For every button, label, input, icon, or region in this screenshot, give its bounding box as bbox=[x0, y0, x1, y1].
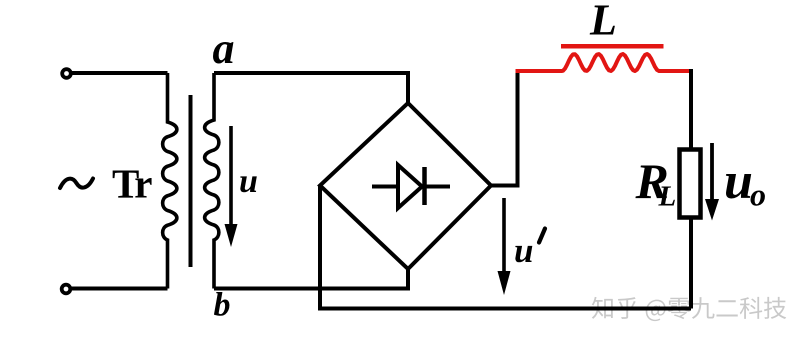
wire b to bridge bbox=[214, 269, 408, 289]
svg-text:u: u bbox=[724, 153, 753, 210]
watermark 知乎 @零九二科技 bbox=[592, 297, 786, 321]
terminal (bottom-left) bbox=[62, 285, 71, 294]
wire a to bridge bbox=[214, 73, 408, 103]
svg-text:u: u bbox=[514, 231, 533, 270]
wire top-left bbox=[72, 71, 168, 75]
svg-text:a: a bbox=[213, 24, 235, 73]
transformer Tr secondary winding bbox=[205, 73, 219, 289]
diode symbol lead bbox=[372, 185, 450, 189]
svg-text:Tr: Tr bbox=[112, 161, 152, 207]
inductor L red bar bbox=[561, 44, 664, 49]
wire bridge right vertex to inductor bbox=[491, 69, 518, 186]
bridge rectifier diamond bbox=[320, 103, 491, 269]
arrow u bbox=[229, 126, 233, 228]
wire inductor to resistor bbox=[689, 69, 693, 150]
svg-text:L: L bbox=[658, 181, 677, 213]
resistor RL body bbox=[680, 150, 701, 218]
svg-text:o: o bbox=[750, 177, 766, 213]
arrow uo bbox=[710, 143, 714, 201]
diode symbol cathode bar bbox=[422, 167, 427, 205]
AC source symbol ~ bbox=[60, 179, 93, 189]
terminal (top-left) bbox=[62, 69, 71, 78]
svg-text:L: L bbox=[589, 0, 617, 45]
wire resistor to bottom rail bbox=[689, 218, 693, 309]
wire bridge left vertex to bottom rail bbox=[320, 186, 691, 309]
inductor L red winding bbox=[516, 54, 692, 71]
transformer Tr core bbox=[189, 95, 193, 267]
svg-text:b: b bbox=[214, 287, 231, 324]
diode symbol triangle bbox=[398, 165, 422, 208]
wire bottom-left bbox=[72, 287, 168, 291]
svg-text:u: u bbox=[239, 163, 258, 200]
transformer Tr primary winding bbox=[163, 73, 177, 289]
arrow u' bbox=[502, 198, 506, 272]
